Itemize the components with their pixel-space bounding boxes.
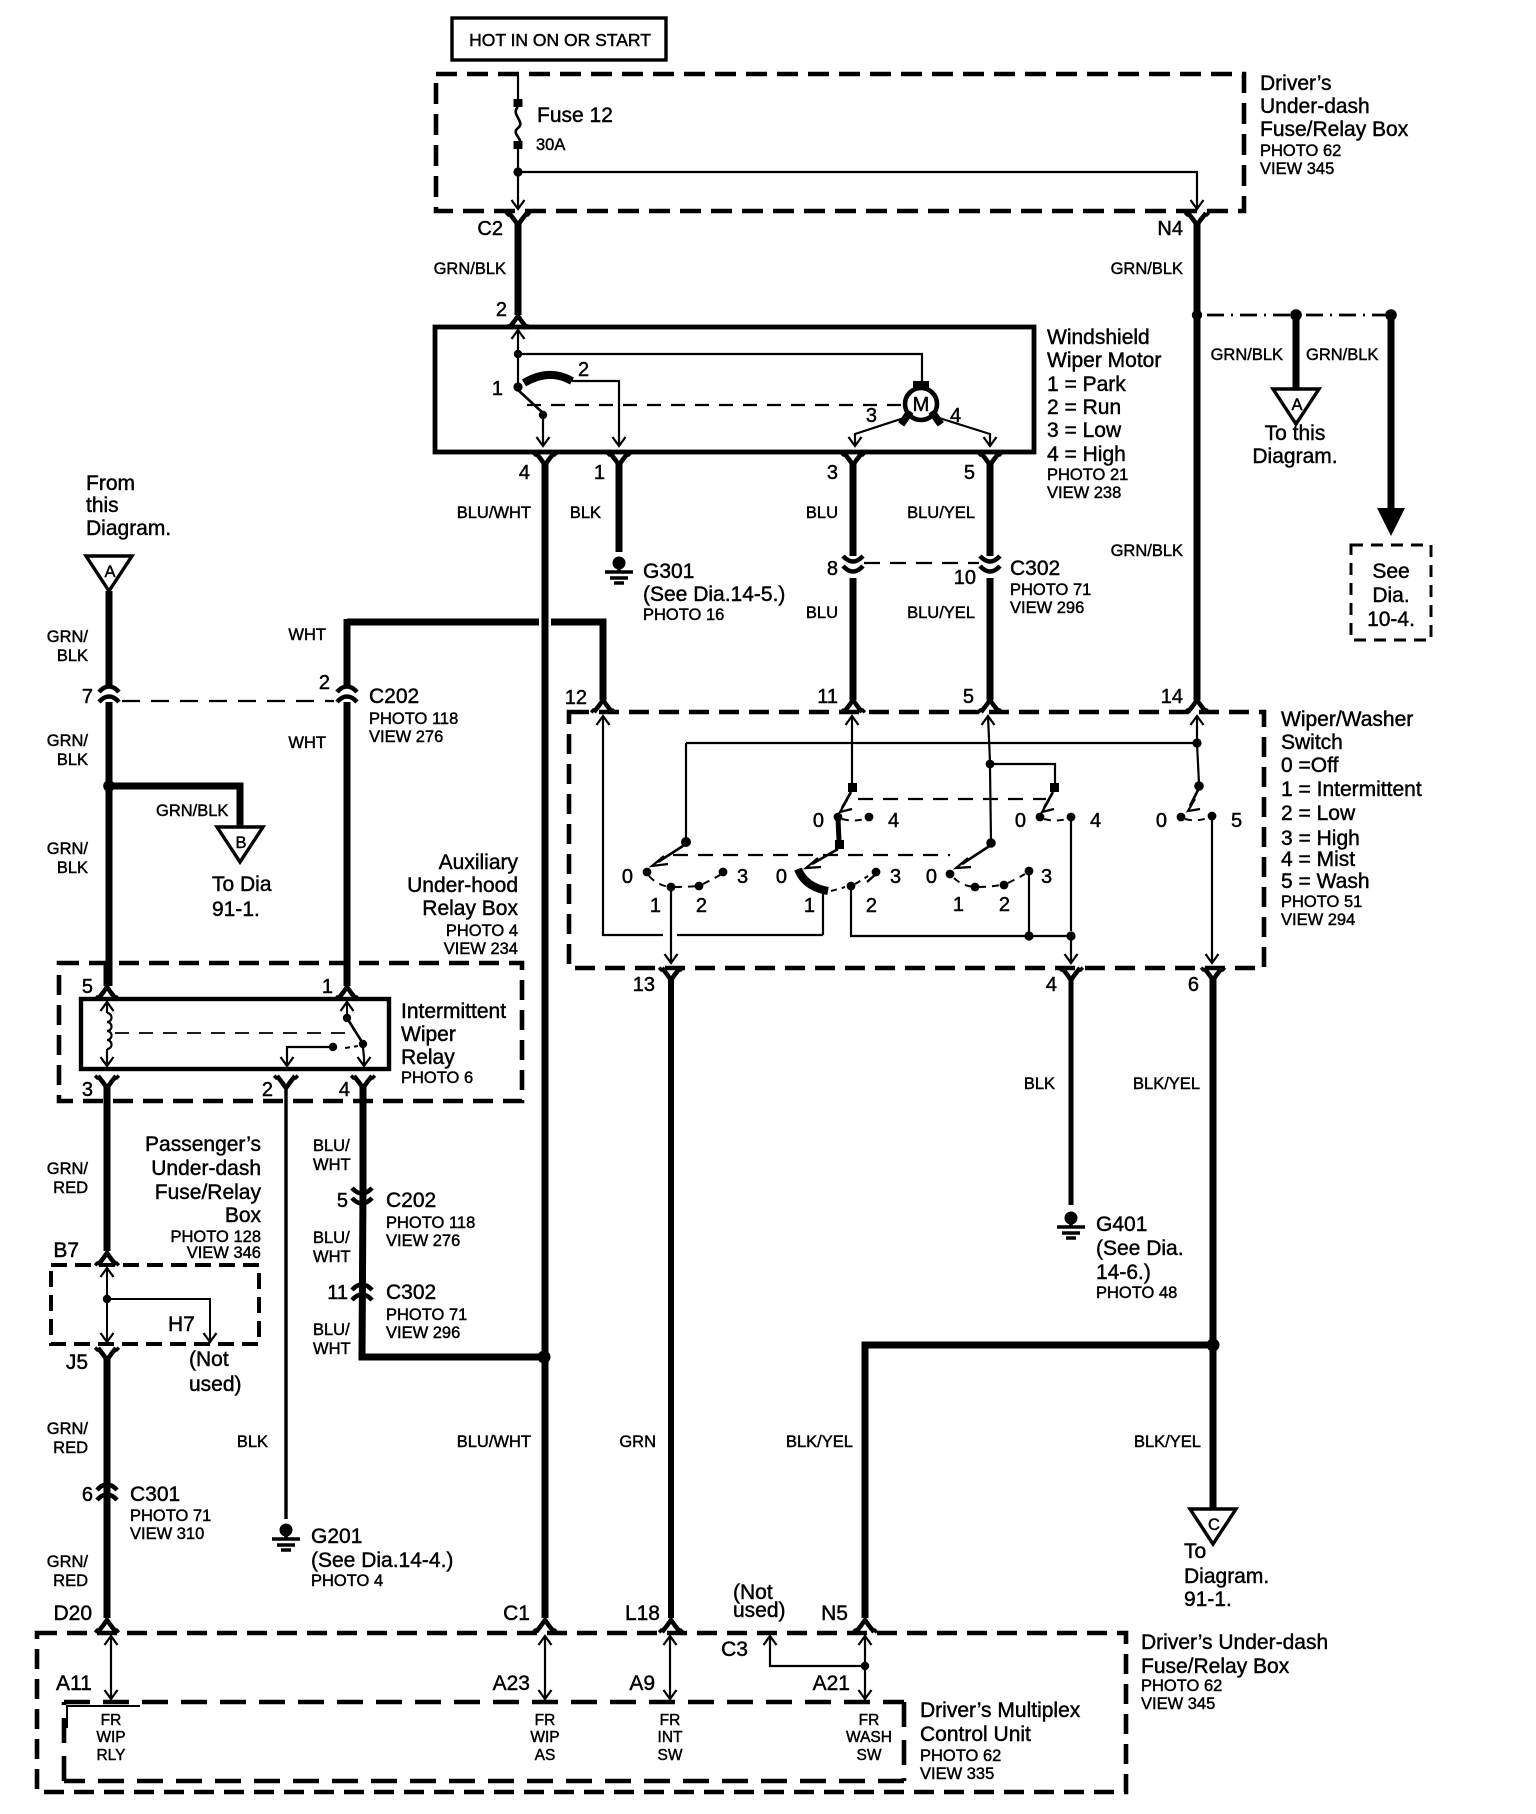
svg-text:3 = Low: 3 = Low xyxy=(1047,419,1122,442)
svg-text:AS: AS xyxy=(535,1747,556,1764)
node bus-pin4 junction xyxy=(1066,931,1075,940)
driver's under-dash fuse/relay box (top, dashed) xyxy=(436,74,1244,211)
wafer4 switch xyxy=(1156,781,1242,832)
wire wafer1 pos1 to pin13 xyxy=(665,891,678,963)
svg-text:Wiper/Washer: Wiper/Washer xyxy=(1281,708,1413,731)
label windshield wiper motor legend xyxy=(1047,326,1161,502)
svg-text:A23: A23 xyxy=(493,1672,530,1695)
svg-text:8: 8 xyxy=(827,558,838,580)
label not used (H7) xyxy=(189,1348,242,1396)
wire run contact to pin1 drop xyxy=(572,381,626,446)
svg-text:RED: RED xyxy=(53,1439,88,1457)
svg-text:A: A xyxy=(104,563,115,581)
svg-text:C202: C202 xyxy=(369,685,419,708)
svg-text:C2: C2 xyxy=(477,218,503,240)
svg-text:Auxiliary: Auxiliary xyxy=(439,851,519,874)
svg-text:VIEW 234: VIEW 234 xyxy=(444,940,518,958)
svg-text:5: 5 xyxy=(963,686,974,708)
svg-text:(See Dia.14-5.): (See Dia.14-5.) xyxy=(643,583,785,606)
svg-text:0: 0 xyxy=(776,866,787,888)
label auxiliary under-hood relay box xyxy=(407,851,518,958)
svg-text:6: 6 xyxy=(1188,974,1199,996)
connector switch pin 4 xyxy=(1046,968,1083,1205)
svg-text:BLK: BLK xyxy=(57,647,88,665)
svg-text:VIEW 276: VIEW 276 xyxy=(369,728,443,746)
svg-text:To: To xyxy=(1184,1540,1206,1563)
svg-text:Relay Box: Relay Box xyxy=(422,897,518,920)
label driver's under-dash fuse/relay box xyxy=(1260,72,1409,178)
wire wafer4 pos5 to pin6 xyxy=(1206,820,1219,963)
svg-text:PHOTO 62: PHOTO 62 xyxy=(1141,1677,1222,1695)
wire dashed C302 pairing xyxy=(864,562,979,564)
label GRN/RED pair 3 xyxy=(47,1553,89,1590)
wire A21 link xyxy=(813,1636,872,1699)
svg-text:VIEW 238: VIEW 238 xyxy=(1047,484,1121,502)
node N4 branch junction xyxy=(1192,310,1202,320)
svg-text:(See Dia.14-4.): (See Dia.14-4.) xyxy=(311,1549,453,1572)
connector switch pin 11 entry xyxy=(846,716,859,725)
svg-text:4 = Mist: 4 = Mist xyxy=(1281,848,1355,871)
wire motor top feed to M xyxy=(518,354,922,385)
svg-text:91-1.: 91-1. xyxy=(1184,1588,1232,1611)
svg-text:WHT: WHT xyxy=(313,1156,351,1174)
node pin6 branch junction xyxy=(1207,1339,1220,1352)
svg-text:Diagram.: Diagram. xyxy=(86,517,171,540)
svg-text:VIEW 296: VIEW 296 xyxy=(386,1324,460,1342)
relay coil xyxy=(101,1002,114,1066)
svg-text:PHOTO 48: PHOTO 48 xyxy=(1096,1284,1177,1302)
svg-text:WHT: WHT xyxy=(313,1248,351,1266)
svg-text:From: From xyxy=(86,472,135,495)
svg-text:VIEW 345: VIEW 345 xyxy=(1260,160,1334,178)
wire fuse to C2 with arrow xyxy=(512,149,525,209)
svg-text:C302: C302 xyxy=(1010,557,1060,580)
svg-text:Dia.: Dia. xyxy=(1372,584,1409,607)
svg-text:GRN: GRN xyxy=(619,1433,656,1451)
svg-text:(See Dia.: (See Dia. xyxy=(1096,1237,1184,1260)
wire A23 link xyxy=(493,1636,552,1699)
svg-text:2: 2 xyxy=(999,894,1010,916)
svg-text:3 = High: 3 = High xyxy=(1281,827,1360,850)
svg-text:GRN/: GRN/ xyxy=(47,1420,89,1438)
wire sw crossbar top xyxy=(686,742,1197,744)
off-page triangle A (right) xyxy=(1252,389,1337,468)
svg-text:C202: C202 xyxy=(386,1189,436,1212)
wire wafer3 pos4 to pin4 xyxy=(1065,821,1078,963)
svg-text:Driver’s: Driver’s xyxy=(1260,72,1332,95)
wire fuse junction to N4 drop xyxy=(518,172,1204,209)
svg-text:GRN/: GRN/ xyxy=(47,840,89,858)
svg-text:91-1.: 91-1. xyxy=(212,898,260,921)
svg-text:Fuse/Relay Box: Fuse/Relay Box xyxy=(1141,1655,1290,1678)
fuse F12 xyxy=(514,99,613,154)
connector C2 xyxy=(477,213,529,328)
svg-text:4: 4 xyxy=(519,462,530,484)
connector relay pin 2 xyxy=(262,1076,298,1519)
svg-text:4: 4 xyxy=(1090,810,1101,832)
intermittent wiper relay box xyxy=(81,999,389,1069)
svg-text:4: 4 xyxy=(950,405,961,427)
svg-text:H7: H7 xyxy=(168,1313,195,1336)
off-page triangle A (left) with label xyxy=(86,472,171,591)
svg-text:N5: N5 xyxy=(821,1602,848,1625)
label BLU/WHT pair mid xyxy=(313,1229,351,1266)
svg-text:3: 3 xyxy=(82,1079,93,1101)
svg-text:2: 2 xyxy=(578,359,589,381)
svg-text:FR: FR xyxy=(859,1712,880,1729)
connector relay pin 3 xyxy=(82,1076,119,1265)
wire branch to triangle B xyxy=(109,786,240,827)
park switch arm arc (run position) xyxy=(524,359,589,383)
label C302 (upper) xyxy=(1010,557,1091,617)
label BLU/WHT pair lower xyxy=(313,1321,351,1358)
connector motor pin 5 xyxy=(964,453,1002,556)
svg-text:4 = High: 4 = High xyxy=(1047,443,1126,466)
svg-text:Under-dash: Under-dash xyxy=(1260,95,1370,118)
park switch dashed linkage xyxy=(527,404,902,406)
svg-text:BLU/: BLU/ xyxy=(313,1321,350,1339)
svg-text:10-4.: 10-4. xyxy=(1367,608,1415,631)
label driver's under-dash (bottom) xyxy=(1141,1631,1328,1713)
svg-text:Diagram.: Diagram. xyxy=(1184,1565,1269,1588)
wire wafer2 pos2 to bus xyxy=(851,890,1071,936)
svg-text:BLU/WHT: BLU/WHT xyxy=(457,504,531,522)
svg-text:A11: A11 xyxy=(56,1672,92,1695)
svg-text:1: 1 xyxy=(322,976,333,998)
label BLU/WHT pair relay xyxy=(313,1137,351,1174)
svg-text:3: 3 xyxy=(827,462,838,484)
svg-text:BLK/YEL: BLK/YEL xyxy=(786,1433,853,1451)
svg-text:A21: A21 xyxy=(813,1672,850,1695)
svg-text:13: 13 xyxy=(633,974,655,996)
label GRN/RED pair 1 xyxy=(47,1160,89,1197)
svg-text:GRN/: GRN/ xyxy=(47,628,89,646)
label FR INT SW xyxy=(658,1712,684,1764)
driver's multiplex control unit box xyxy=(64,1700,904,1705)
wire A to pin7 xyxy=(106,591,113,686)
node crossbar-14 junction xyxy=(1192,738,1201,747)
svg-text:GRN/BLK: GRN/BLK xyxy=(434,260,506,278)
svg-text:GRN/BLK: GRN/BLK xyxy=(1306,346,1378,364)
connector motor pin 4 xyxy=(519,453,557,1632)
wire C3 stub xyxy=(764,1636,870,1670)
wire sw12 internal xyxy=(603,716,823,935)
node branch to B xyxy=(103,780,115,792)
svg-text:Passenger’s: Passenger’s xyxy=(145,1133,261,1156)
label D20 C1 L18 N5 row xyxy=(53,1602,848,1625)
svg-text:See: See xyxy=(1372,560,1409,583)
svg-text:1: 1 xyxy=(804,895,815,917)
svg-text:14-6.): 14-6.) xyxy=(1096,1261,1151,1284)
svg-text:G201: G201 xyxy=(311,1525,362,1548)
svg-text:0: 0 xyxy=(1015,810,1026,832)
svg-text:VIEW 276: VIEW 276 xyxy=(386,1232,460,1250)
svg-text:INT: INT xyxy=(658,1729,684,1746)
svg-text:Driver’s Multiplex: Driver’s Multiplex xyxy=(920,1699,1081,1722)
label wiper/washer switch legend xyxy=(1281,708,1422,929)
svg-text:this: this xyxy=(86,494,119,517)
svg-text:GRN/: GRN/ xyxy=(47,1160,89,1178)
svg-text:5: 5 xyxy=(964,462,975,484)
svg-text:4: 4 xyxy=(1046,974,1057,996)
wiper/washer switch box dashed xyxy=(569,712,1264,968)
off-page triangle C xyxy=(1184,1509,1269,1611)
wafer2 wiper switch upper xyxy=(813,716,899,832)
motor M symbol xyxy=(898,381,944,427)
svg-text:WHT: WHT xyxy=(313,1340,351,1358)
svg-text:0: 0 xyxy=(813,810,824,832)
svg-text:Switch: Switch xyxy=(1281,731,1343,754)
svg-text:G301: G301 xyxy=(643,560,694,583)
svg-text:Under-hood: Under-hood xyxy=(407,874,518,897)
connector switch pin 13 xyxy=(633,968,683,1632)
svg-text:0: 0 xyxy=(622,866,633,888)
svg-text:Fuse 12: Fuse 12 xyxy=(537,104,613,127)
windshield wiper motor box xyxy=(435,327,1034,452)
label GRN/BLK pair 1 xyxy=(47,628,89,665)
node BLU/WHT junction xyxy=(538,1351,551,1364)
svg-text:VIEW 294: VIEW 294 xyxy=(1281,911,1355,929)
svg-text:VIEW 345: VIEW 345 xyxy=(1141,1695,1215,1713)
wafer2 wiper switch lower xyxy=(776,819,901,917)
wafer3 washer feed xyxy=(986,716,1055,841)
svg-text:Fuse/Relay: Fuse/Relay xyxy=(155,1181,262,1204)
svg-text:PHOTO 71: PHOTO 71 xyxy=(386,1306,467,1324)
svg-text:2: 2 xyxy=(866,895,877,917)
svg-text:B: B xyxy=(235,834,246,852)
wire dash-dot branch to A and See-dia xyxy=(1207,314,1391,317)
svg-text:5 = Wash: 5 = Wash xyxy=(1281,870,1370,893)
svg-text:2 = Run: 2 = Run xyxy=(1047,396,1121,419)
connector C301 pin 6 xyxy=(82,1483,211,1543)
svg-text:3: 3 xyxy=(890,866,901,888)
svg-text:VIEW 296: VIEW 296 xyxy=(1010,599,1084,617)
connector C302 pin 11 xyxy=(327,1281,467,1342)
HOT IN ON OR START box xyxy=(452,18,666,60)
svg-text:PHOTO 6: PHOTO 6 xyxy=(401,1069,473,1087)
wire wafer1 pivot feed xyxy=(685,743,687,840)
svg-text:1: 1 xyxy=(650,895,661,917)
svg-text:1 = Intermittent: 1 = Intermittent xyxy=(1281,778,1422,801)
wafer3 lower (washer) xyxy=(926,838,1052,916)
svg-text:Control Unit: Control Unit xyxy=(920,1723,1031,1746)
svg-text:11: 11 xyxy=(817,686,838,708)
connector switch pin 5 entry xyxy=(982,716,995,725)
svg-text:2: 2 xyxy=(696,895,707,917)
svg-text:GRN/BLK: GRN/BLK xyxy=(1111,542,1183,560)
svg-text:11: 11 xyxy=(327,1282,348,1304)
svg-text:4: 4 xyxy=(339,1079,350,1101)
connector switch pin 6 xyxy=(1188,968,1225,1509)
svg-text:PHOTO 51: PHOTO 51 xyxy=(1281,893,1362,911)
svg-text:Fuse/Relay Box: Fuse/Relay Box xyxy=(1260,118,1409,141)
wafer3 upper (mist) xyxy=(1015,783,1101,832)
svg-text:RED: RED xyxy=(53,1572,88,1590)
svg-text:Wiper: Wiper xyxy=(401,1023,456,1046)
svg-text:BLU/YEL: BLU/YEL xyxy=(907,504,975,522)
svg-text:GRN/BLK: GRN/BLK xyxy=(1111,260,1183,278)
svg-text:C: C xyxy=(1208,1516,1220,1534)
svg-text:used): used) xyxy=(189,1373,242,1396)
svg-text:Wiper Motor: Wiper Motor xyxy=(1047,349,1161,372)
wire B7 internal xyxy=(101,1268,217,1342)
svg-text:PHOTO 71: PHOTO 71 xyxy=(1010,581,1091,599)
label intermittent wiper relay xyxy=(401,1000,506,1087)
mech linkage dashed lower xyxy=(673,854,950,856)
svg-text:Driver’s Under-dash: Driver’s Under-dash xyxy=(1141,1631,1328,1654)
passenger's fuse box dashed xyxy=(51,1265,259,1344)
svg-text:VIEW 346: VIEW 346 xyxy=(187,1244,261,1262)
park switch pivot 1 xyxy=(492,378,523,400)
connector C302 pin 10 xyxy=(954,556,1002,712)
auxiliary under-hood relay box dashed xyxy=(59,963,522,1101)
svg-text:SW: SW xyxy=(658,1747,683,1764)
label driver's multiplex control unit xyxy=(920,1699,1081,1783)
ground G201 xyxy=(272,1524,453,1591)
connector aux pin 5 xyxy=(82,963,119,999)
bottom driver's box dashed xyxy=(37,1633,1126,1792)
svg-text:12: 12 xyxy=(565,687,587,709)
svg-text:PHOTO 4: PHOTO 4 xyxy=(446,922,518,940)
svg-text:14: 14 xyxy=(1161,686,1183,708)
svg-text:1: 1 xyxy=(594,462,605,484)
connector switch pin 14 entry xyxy=(1191,716,1204,725)
svg-text:2: 2 xyxy=(262,1079,273,1101)
svg-text:N4: N4 xyxy=(1157,218,1183,240)
wire WHT horizontal run xyxy=(347,619,603,700)
wire A11 link xyxy=(56,1636,118,1699)
svg-text:3: 3 xyxy=(1041,866,1052,888)
wire wafer2 pos1 to bus xyxy=(822,892,824,935)
svg-text:J5: J5 xyxy=(66,1351,88,1374)
svg-text:RED: RED xyxy=(53,1179,88,1197)
wire to see-dia arrow xyxy=(1377,315,1405,536)
svg-text:BLU/: BLU/ xyxy=(313,1137,350,1155)
ground G401 xyxy=(1057,1212,1184,1303)
label passenger's box xyxy=(145,1133,261,1262)
svg-text:C302: C302 xyxy=(386,1281,436,1304)
wire A9 link xyxy=(629,1636,676,1699)
connector aux pin 1 xyxy=(322,976,359,999)
svg-text:To Dia: To Dia xyxy=(212,873,272,896)
svg-text:B7: B7 xyxy=(53,1239,79,1262)
connector J5 xyxy=(96,1348,119,1632)
svg-text:BLU/: BLU/ xyxy=(313,1229,350,1247)
svg-text:GRN/BLK: GRN/BLK xyxy=(1211,346,1283,364)
svg-text:RLY: RLY xyxy=(96,1747,125,1764)
svg-text:1 = Park: 1 = Park xyxy=(1047,373,1126,396)
off-page triangle B xyxy=(212,827,272,921)
relay contact xyxy=(281,1002,371,1066)
svg-text:30A: 30A xyxy=(536,136,565,154)
label C202 (upper) xyxy=(369,685,458,746)
svg-text:10: 10 xyxy=(954,567,976,589)
svg-text:6: 6 xyxy=(82,1484,93,1506)
connector relay pin 4 xyxy=(339,1076,375,1190)
wire motor pin2 entry arrow xyxy=(512,330,525,383)
connector N4 xyxy=(1157,213,1208,712)
see dia 10-4 box xyxy=(1351,545,1431,640)
connector motor pin 3 xyxy=(827,453,865,556)
svg-text:PHOTO 16: PHOTO 16 xyxy=(643,606,724,624)
relay linkage dashed xyxy=(115,1032,345,1034)
node branch A junction xyxy=(1290,309,1302,321)
wire relay pin4 run to BLU/WHT bus xyxy=(362,1190,544,1357)
svg-text:PHOTO 71: PHOTO 71 xyxy=(130,1507,211,1525)
svg-text:5: 5 xyxy=(1231,810,1242,832)
node branch see-dia junction xyxy=(1385,309,1397,321)
wire to triangle A xyxy=(1293,315,1300,389)
svg-text:BLU: BLU xyxy=(806,504,838,522)
connector C202 pin 2 xyxy=(319,672,357,986)
svg-text:C301: C301 xyxy=(130,1483,180,1506)
svg-text:HOT IN ON OR START: HOT IN ON OR START xyxy=(469,30,651,50)
connector motor pin 1 xyxy=(594,453,631,552)
wafer4 wash feed xyxy=(1197,716,1199,784)
svg-text:2: 2 xyxy=(319,672,330,694)
connector C202 pin 5 xyxy=(337,1188,475,1250)
mech linkage dashed upper xyxy=(858,798,1046,800)
wire motor high to pin5 xyxy=(936,405,997,446)
label GRN/RED pair 2 xyxy=(47,1420,89,1457)
wafer1 intermittent switch xyxy=(622,837,748,917)
svg-text:BLU/YEL: BLU/YEL xyxy=(907,604,975,622)
svg-text:BLK/YEL: BLK/YEL xyxy=(1134,1433,1201,1451)
svg-text:Under-dash: Under-dash xyxy=(151,1157,261,1180)
svg-text:BLK/YEL: BLK/YEL xyxy=(1133,1075,1200,1093)
connector pin 7 xyxy=(82,686,119,986)
svg-text:VIEW 335: VIEW 335 xyxy=(920,1765,994,1783)
svg-text:BLU/WHT: BLU/WHT xyxy=(457,1433,531,1451)
wire dashed 7 to 2 pairing xyxy=(122,700,334,702)
svg-text:PHOTO 118: PHOTO 118 xyxy=(386,1214,475,1232)
svg-text:Box: Box xyxy=(225,1204,262,1227)
svg-text:G401: G401 xyxy=(1096,1213,1147,1236)
svg-text:GRN/BLK: GRN/BLK xyxy=(156,802,228,820)
svg-text:BLU: BLU xyxy=(806,604,838,622)
ground G301 xyxy=(605,557,785,625)
svg-text:2: 2 xyxy=(496,299,507,321)
label FR WIP RLY xyxy=(96,1712,125,1764)
svg-text:BLK: BLK xyxy=(570,504,601,522)
svg-text:used): used) xyxy=(733,1599,786,1622)
svg-text:WHT: WHT xyxy=(288,626,326,644)
svg-text:PHOTO 118: PHOTO 118 xyxy=(369,710,458,728)
svg-text:SW: SW xyxy=(857,1747,882,1764)
svg-text:PHOTO 4: PHOTO 4 xyxy=(311,1572,383,1590)
svg-text:M: M xyxy=(913,394,930,416)
svg-text:PHOTO 21: PHOTO 21 xyxy=(1047,466,1128,484)
svg-text:FR: FR xyxy=(535,1712,556,1729)
svg-text:BLK: BLK xyxy=(1024,1075,1055,1093)
svg-text:L18: L18 xyxy=(625,1602,660,1625)
wire fuse feed xyxy=(517,76,519,99)
svg-text:4: 4 xyxy=(888,810,899,832)
wire motor low to pin3 xyxy=(849,405,908,446)
svg-text:C3: C3 xyxy=(721,1638,748,1661)
svg-text:Diagram.: Diagram. xyxy=(1252,445,1337,468)
svg-text:Windshield: Windshield xyxy=(1047,326,1150,349)
connector C302 pin 8 xyxy=(827,556,865,712)
svg-text:WHT: WHT xyxy=(288,734,326,752)
node motor internal junction xyxy=(514,350,522,358)
connector switch pin 12 xyxy=(565,687,615,725)
svg-text:Relay: Relay xyxy=(401,1046,455,1069)
svg-text:0: 0 xyxy=(926,866,937,888)
svg-text:C1: C1 xyxy=(503,1602,530,1625)
svg-text:To this: To this xyxy=(1265,422,1326,445)
svg-text:2 = Low: 2 = Low xyxy=(1281,802,1356,825)
